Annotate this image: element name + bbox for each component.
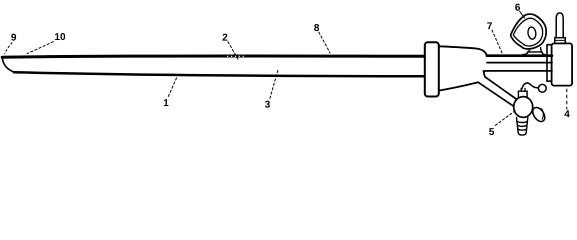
stopcock lever [522,83,538,89]
wing valve base [523,48,545,55]
stopcock side port [530,105,547,123]
luer cap collar mid line [555,39,566,41]
leader 8 [319,32,331,53]
stopcock stem [518,91,527,98]
tip bevel [2,58,14,72]
side port upper line [485,77,516,99]
collar flange [425,42,439,96]
stopcock luer threads [517,118,528,136]
leader 2 [228,42,239,60]
right tube middle line [487,62,552,64]
side port lower line [478,82,513,106]
leader 7 [492,30,502,54]
label 5 [489,128,494,135]
wing valve inner outline [513,18,542,46]
luer cap collar [555,38,566,44]
wing valve inner hole [527,27,536,40]
label 2 [223,34,228,41]
luer cap dome [556,13,563,38]
label 4 [564,110,569,117]
leader 5 [495,110,517,126]
outer tube bottom edge [14,72,425,76]
block left flange [547,45,552,82]
label 9 [11,34,16,41]
stopcock knob [538,84,546,92]
valve block body [552,43,573,85]
label 1 [164,99,169,106]
stopcock stem ribs [521,88,525,91]
white dots on tube line at leader 2 crossing [227,55,245,57]
leader 1 [168,77,177,97]
label 6 [515,4,520,11]
right tube top edge [487,54,552,57]
right tube lower edge [484,71,552,77]
label 10 [55,33,65,40]
stopcock ball [514,97,533,118]
stopcock side port rim [542,109,544,119]
label 8 [314,24,319,31]
cone bottom edge [439,82,478,90]
outer tube top edge [2,56,424,57]
leader 6 [519,11,524,18]
label 7 [487,22,492,29]
leader 3 [270,70,278,99]
wing valve outer outline [511,14,547,49]
leader 10 [27,42,54,54]
label 3 [265,101,270,108]
cone top edge [439,46,487,55]
leader 4 [566,89,568,110]
leader 9 [5,43,13,55]
